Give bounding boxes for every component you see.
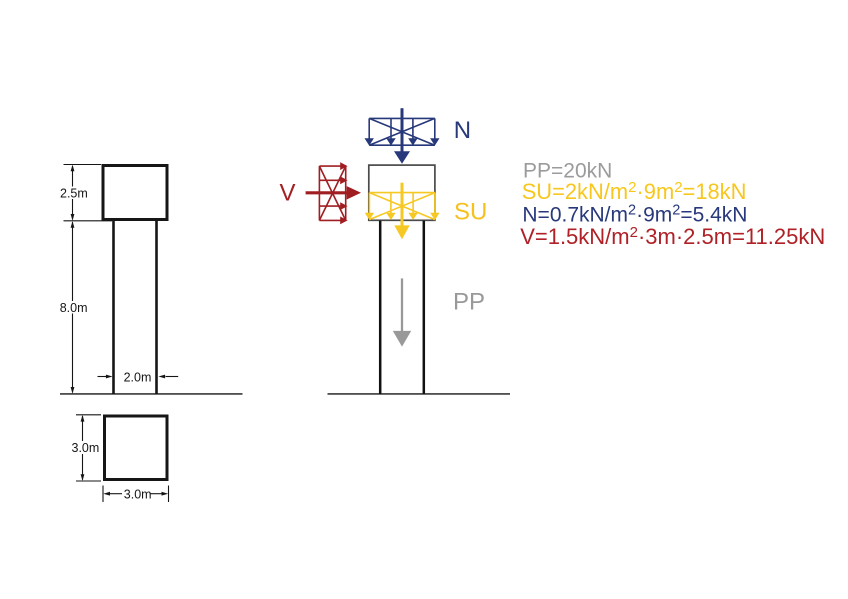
N small arrowheads xyxy=(365,138,440,145)
dimension 3.0m vertical line xyxy=(69,415,100,481)
SU small arrowheads xyxy=(365,213,440,220)
middle column xyxy=(380,221,424,394)
dimension 3.0m bottom extension lines xyxy=(103,486,169,503)
svg-text:3.0m: 3.0m xyxy=(72,441,100,455)
plan view square xyxy=(105,416,168,480)
N resultant arrow xyxy=(394,108,410,164)
dimension 2.0m xyxy=(98,370,179,384)
N distributed load (blue) xyxy=(369,118,435,145)
svg-text:SU: SU xyxy=(454,199,487,226)
SU resultant arrow xyxy=(394,183,409,240)
left elevation column xyxy=(114,221,157,394)
svg-text:2.0m: 2.0m xyxy=(124,370,152,384)
dimension 8.0m line xyxy=(57,221,88,394)
svg-text:8.0m: 8.0m xyxy=(60,301,88,315)
middle sign box xyxy=(369,165,435,220)
left ground line xyxy=(60,393,243,395)
dimension 2.5m ticks xyxy=(64,165,113,221)
dimension 3.0m bottom line xyxy=(103,487,168,501)
svg-text:N: N xyxy=(454,117,471,144)
svg-text:V=1.5kN/m2·3m·2.5m=11.25kN: V=1.5kN/m2·3m·2.5m=11.25kN xyxy=(520,224,825,249)
dimension 3.0m vertical ticks xyxy=(76,415,101,481)
middle ground line xyxy=(328,393,511,395)
svg-text:V: V xyxy=(280,179,296,206)
V resultant arrow xyxy=(306,186,361,199)
PP self-weight arrow (gray) xyxy=(393,278,411,346)
SU distributed load (yellow) xyxy=(369,193,435,220)
svg-text:3.0m: 3.0m xyxy=(124,487,152,501)
svg-text:2.5m: 2.5m xyxy=(60,187,88,201)
V small arrowheads xyxy=(340,162,347,224)
V distributed load (red) xyxy=(319,166,345,220)
svg-text:PP: PP xyxy=(453,289,485,316)
left elevation sign box xyxy=(103,166,167,220)
dimension 2.5m line xyxy=(57,165,88,221)
